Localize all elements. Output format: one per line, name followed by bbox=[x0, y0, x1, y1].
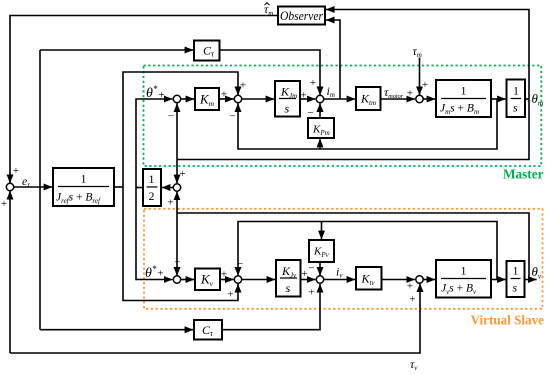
svg-text:τm: τm bbox=[413, 44, 422, 59]
svg-text:+: + bbox=[409, 294, 415, 306]
svg-text:Master: Master bbox=[503, 167, 544, 182]
svg-text:+: + bbox=[407, 88, 413, 100]
svg-text:+: + bbox=[422, 79, 428, 91]
svg-text:−: − bbox=[307, 107, 313, 119]
svg-text:+: + bbox=[300, 90, 306, 102]
svg-text:θm: θm bbox=[532, 91, 544, 108]
svg-text:+: + bbox=[227, 289, 233, 301]
svg-text:+: + bbox=[1, 198, 7, 210]
svg-text:−: − bbox=[168, 111, 174, 123]
svg-text:θ*: θ* bbox=[145, 264, 157, 281]
svg-text:+: + bbox=[407, 281, 413, 293]
svg-text:1: 1 bbox=[149, 172, 155, 186]
svg-text:+: + bbox=[13, 165, 19, 177]
svg-text:+: + bbox=[221, 89, 227, 101]
svg-text:Observer: Observer bbox=[280, 8, 324, 23]
svg-text:1: 1 bbox=[461, 264, 467, 278]
svg-text:−: − bbox=[237, 258, 243, 270]
svg-text:s: s bbox=[513, 101, 518, 115]
svg-text:1: 1 bbox=[81, 172, 87, 186]
svg-text:2: 2 bbox=[149, 189, 155, 203]
svg-text:τmotor: τmotor bbox=[384, 85, 404, 100]
svg-text:s: s bbox=[285, 102, 290, 116]
svg-text:−: − bbox=[174, 257, 180, 269]
svg-text:Virtual Slave: Virtual Slave bbox=[471, 313, 545, 328]
svg-text:θv: θv bbox=[532, 264, 542, 281]
svg-text:1: 1 bbox=[513, 264, 519, 278]
svg-text:+: + bbox=[167, 197, 173, 209]
svg-text:+: + bbox=[240, 80, 246, 92]
svg-text:−: − bbox=[229, 111, 235, 123]
svg-text:er: er bbox=[22, 174, 30, 189]
svg-text:iv: iv bbox=[336, 265, 343, 280]
svg-text:+: + bbox=[179, 168, 185, 180]
svg-text:+: + bbox=[308, 287, 314, 299]
svg-text:+: + bbox=[301, 268, 307, 280]
svg-text:s: s bbox=[513, 281, 518, 295]
svg-text:−: − bbox=[308, 263, 314, 275]
svg-text:1: 1 bbox=[513, 84, 519, 98]
svg-text:τv: τv bbox=[410, 357, 418, 372]
svg-text:s: s bbox=[286, 281, 291, 295]
svg-text:+: + bbox=[310, 77, 316, 89]
svg-text:+: + bbox=[221, 269, 227, 281]
svg-text:1: 1 bbox=[461, 84, 467, 98]
svg-text:+: + bbox=[157, 268, 163, 280]
svg-text:+: + bbox=[158, 89, 164, 101]
svg-text:im: im bbox=[327, 84, 335, 99]
